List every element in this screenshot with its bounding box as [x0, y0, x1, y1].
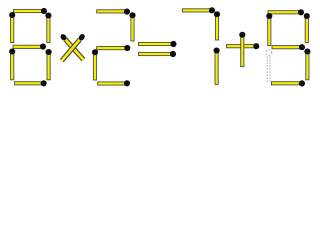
matchstick: digit 9 segment F (upper-left) [266, 13, 272, 46]
matchstick: digit 8 segment F (upper-left) [9, 12, 15, 43]
matchstick: digit 8 segment B (upper-right) [45, 13, 51, 43]
matchstick: digit 2 segment G (middle) [97, 45, 131, 51]
matchstick: digit 9 segment D (bottom) [272, 80, 306, 86]
matchstick: digit 7 segment B (upper-right) [214, 11, 220, 40]
matchstick: plus sign vertical bar [239, 32, 245, 67]
matchstick: multiplication sign stroke NW-SE [59, 33, 83, 60]
matchstick: digit 9 segment C (lower-right) [304, 49, 310, 80]
matchstick: digit 9 segment G (middle) [272, 44, 305, 50]
matchstick: digit 8 segment E (lower-left) [9, 49, 15, 80]
matchstick: digit 7 segment C (lower-right) [214, 48, 220, 85]
matchstick: digit 7 segment A (top) [183, 7, 216, 13]
matchstick: digit 8 segment C (lower-right) [46, 49, 52, 80]
matchstick: digit 2 segment D (bottom) [98, 80, 130, 86]
matchstick: digit 8 segment G (middle) [13, 44, 46, 50]
matchstick: digit 9 segment B (upper-right) [304, 13, 310, 43]
ghost matchstick outline: digit 9 segment E (removed match position) [266, 50, 272, 83]
matchstick: digit 8 segment D (bottom) [15, 80, 47, 86]
matchstick: digit 9 segment A (top) [268, 9, 304, 15]
matchstick: digit 8 segment A (top) [14, 8, 48, 14]
matchstick: multiplication sign stroke NE-SW [62, 33, 86, 61]
matchstick: digit 2 segment B (upper-right) [129, 12, 135, 41]
matchstick: plus sign horizontal bar [227, 43, 260, 49]
matchstick: digit 2 segment E (lower-left) [92, 49, 98, 80]
matchstick: equals sign upper bar [139, 41, 177, 47]
matchstick: digit 2 segment A (top) [97, 9, 130, 15]
matchstick: equals sign lower bar [139, 51, 177, 57]
